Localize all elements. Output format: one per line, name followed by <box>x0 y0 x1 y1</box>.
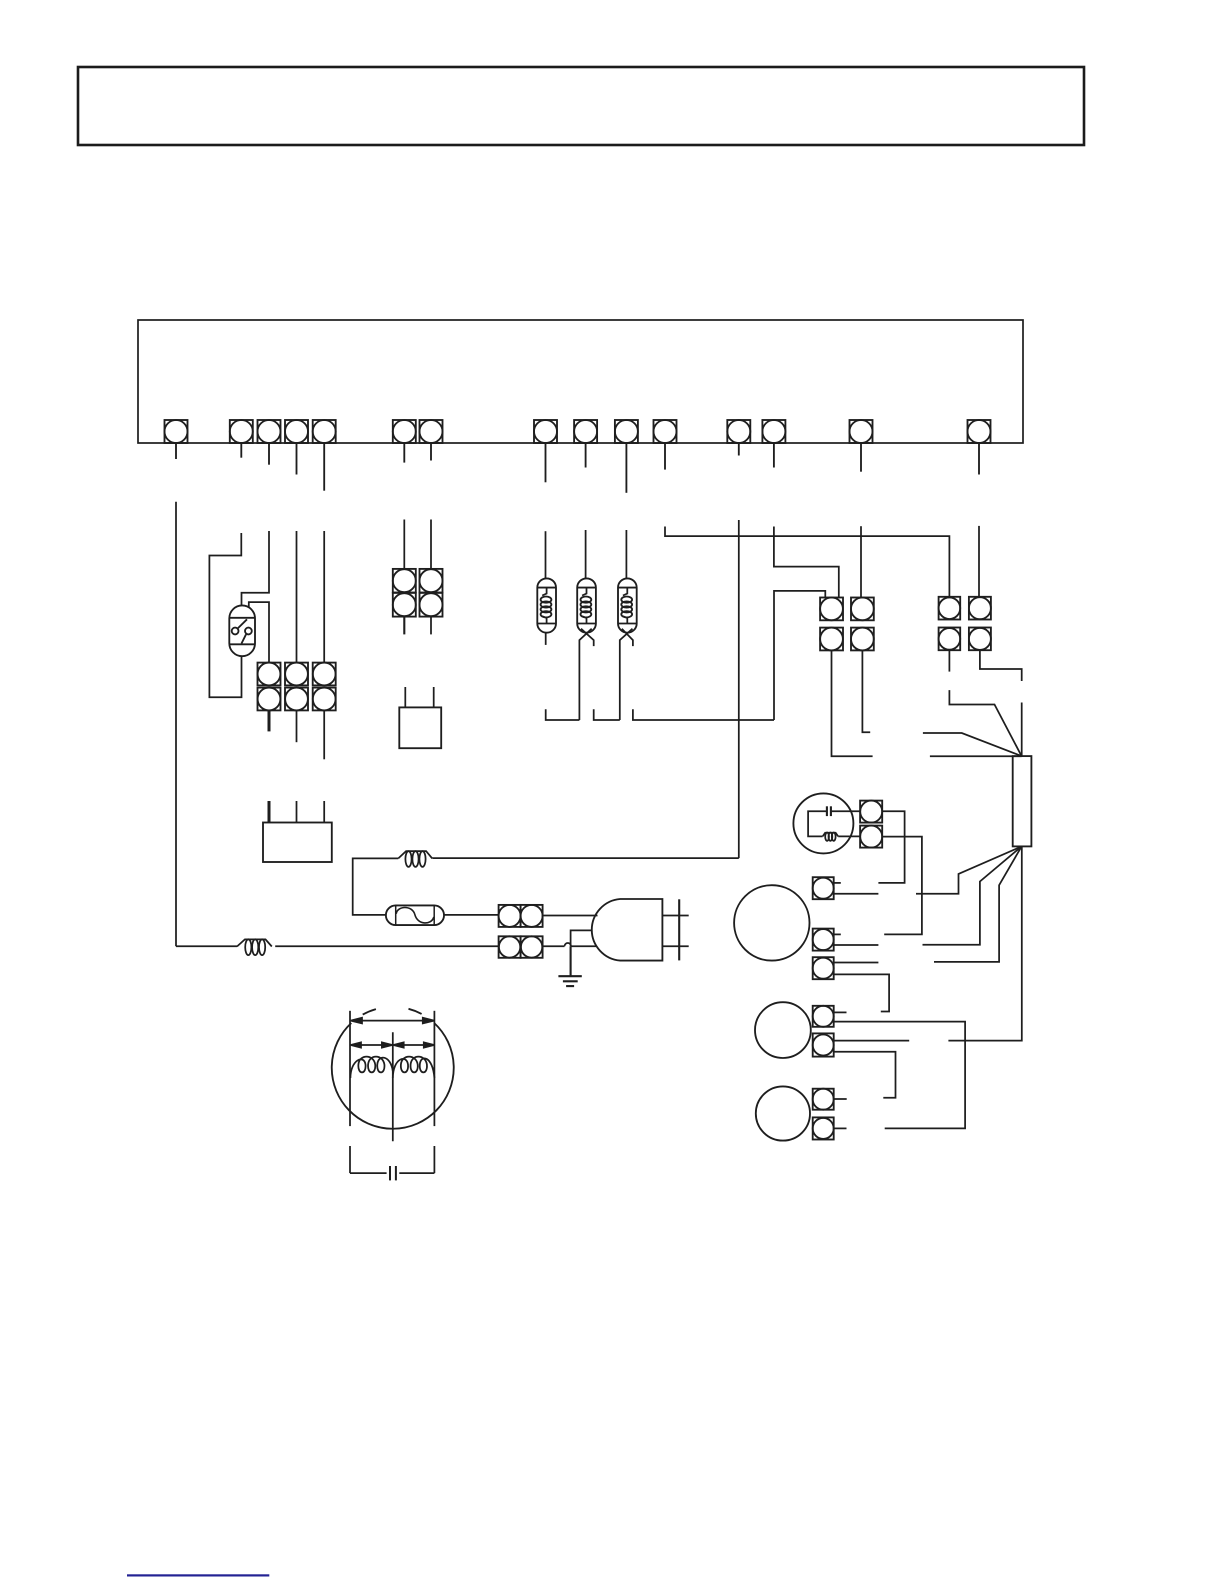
wire from T14 to molex block <box>860 526 862 597</box>
wire J6 col2 lead <box>980 650 1022 681</box>
wire terminal A upper stub <box>834 882 841 884</box>
wire terminal E lower loop to F <box>834 1052 896 1098</box>
terminal T9 <box>574 420 597 468</box>
wire from T10 down to gas valve solenoid 3 <box>625 530 627 578</box>
wire strip fan 3 to blower C <box>934 846 1022 962</box>
wire igniter stepped lead <box>571 930 593 946</box>
wire transformer primary lead 2 <box>296 801 298 823</box>
wire igniter plug pins <box>662 916 688 947</box>
terminal T11 <box>654 420 677 470</box>
inducer plug J7 pin1 <box>860 801 882 823</box>
wire transformer primary lead 1 (heavy) <box>268 801 271 823</box>
wire from T8 down to gas valve solenoid 1 <box>545 531 547 578</box>
igniter connector J4 lower pair <box>499 936 543 958</box>
winding frame right line <box>433 1011 435 1173</box>
wire from T15 to right plug block <box>978 526 980 597</box>
wire inducer cap to plug <box>831 810 860 812</box>
wire terminal D loop to G <box>834 1022 965 1129</box>
wire from T11 across to right plug <box>665 527 949 597</box>
molex block J5 row2 col1 <box>820 628 843 651</box>
gas valve solenoid SOL1 <box>537 578 556 632</box>
molex block J5 (2x2) row1 col1 <box>820 598 843 621</box>
wire solenoid 1 bottom lead <box>545 633 547 645</box>
wire igniter upper lead <box>543 915 598 917</box>
winding coil right <box>393 1057 435 1078</box>
capacitor C1 inside inducer <box>827 806 831 816</box>
wire terminal A lower stub <box>834 893 879 895</box>
wire door switch lead 1 <box>404 687 406 707</box>
motor terminal F <box>813 1089 834 1110</box>
connector block J1 (3x2) row1 col1 <box>258 663 281 686</box>
blower terminal C <box>813 957 834 979</box>
door switch box SW1 <box>399 707 441 748</box>
terminal T14 <box>850 420 873 472</box>
connector block J1 row2 col3 <box>313 688 336 711</box>
blower terminal B <box>813 929 834 951</box>
wire transformer primary lead 3 <box>323 801 325 823</box>
wire J5 col1 resumed to strip <box>930 755 1022 757</box>
winding detail dashed top arc <box>363 1009 422 1015</box>
wire door switch lead 2 <box>433 687 435 707</box>
wire J1 col1 lead (heavy) <box>268 710 271 731</box>
terminal T8 <box>534 420 557 482</box>
terminal T5 <box>313 420 336 491</box>
arrow left half span <box>351 1042 392 1047</box>
wire J1 col2 lead <box>296 710 298 742</box>
wire from T4 down to connector block <box>296 531 298 663</box>
gas valve solenoid SOL3 <box>618 578 637 632</box>
wire terminal E upper stub <box>834 1040 910 1042</box>
wire J6 col1 resumed to strip <box>949 690 1021 756</box>
wire strip fan 1 to blower A <box>916 846 1022 893</box>
wire lower feed line left segment <box>176 945 237 947</box>
terminal T2 <box>230 420 253 458</box>
plug block J2 (2x2) row1 col1 <box>393 569 416 593</box>
wire from T5 down to connector block <box>323 531 325 663</box>
arrow right half span <box>394 1042 435 1047</box>
blower motor circle M2 <box>734 885 809 960</box>
terminal T4 <box>285 420 308 475</box>
wire J2 col2 lead <box>430 617 432 635</box>
wire strip fan 2 to blower B <box>923 846 1022 944</box>
wire J2 col1 lead <box>403 617 405 635</box>
wire solenoid return segment 2 <box>594 709 620 720</box>
inductor choke L1 on lower feed line <box>237 939 272 955</box>
terminal T6 <box>393 420 416 463</box>
molex block J5 row1 col2 <box>851 598 874 621</box>
winding frame center line <box>392 1032 394 1141</box>
terminal T7 <box>420 420 443 461</box>
blower terminal A <box>813 877 834 899</box>
wire solenoid return segment 3 <box>633 709 774 720</box>
run capacitor C2 <box>350 1166 434 1180</box>
wire heater line corner down <box>353 858 399 915</box>
wire from T3 down to pressure switch top <box>242 531 270 606</box>
wire J5 col1 drop to harness strip <box>832 650 873 756</box>
overload breaker OL1 <box>386 905 444 925</box>
hot surface igniter HSI <box>592 899 663 961</box>
igniter connector J3 upper pair <box>499 905 543 927</box>
wire solenoid 3 crossed leads <box>620 629 633 720</box>
inductor choke L2 on heater line <box>398 851 432 867</box>
wire solenoid 2 crossed leads <box>579 629 593 720</box>
plug block J6 (2x2) row1 col1 <box>939 597 961 620</box>
wire solenoid return riser to molex <box>774 591 825 720</box>
wire terminal C upper stub <box>834 962 879 964</box>
connector block J1 row1 col2 <box>285 663 308 686</box>
auxiliary motor circle M4 <box>756 1086 810 1140</box>
wire J1 col3 lead <box>323 710 325 759</box>
molex block J5 row2 col2 <box>851 628 874 651</box>
wire inducer cap branch <box>808 811 827 836</box>
plug block J6 row2 col2 <box>969 628 991 651</box>
terminal T13 <box>762 420 785 468</box>
plug block J2 row2 col1 <box>393 593 416 617</box>
inductor winding inside inducer <box>823 833 839 841</box>
connector block J1 row1 col3 <box>313 663 336 686</box>
plug block J6 row2 col1 <box>939 628 961 651</box>
wire terminal F stub <box>834 1098 847 1100</box>
ground symbol GND <box>558 946 581 986</box>
winding frame left line <box>349 1011 351 1173</box>
wire from T7 down to plug block <box>430 520 432 569</box>
wire J5 col2 resumed to strip <box>923 733 1022 756</box>
transformer TR1 <box>263 823 332 863</box>
wire J6 col1 lead <box>948 650 950 671</box>
wire igniter lower lead with junction bump <box>543 943 596 946</box>
control board outline <box>138 320 1023 443</box>
footer link line <box>127 1574 269 1576</box>
wire from T9 down to gas valve solenoid 2 <box>585 530 587 578</box>
motor terminal G <box>813 1117 834 1139</box>
plug block J6 row1 col2 <box>969 597 991 620</box>
wire breaker to igniter connector <box>445 914 499 916</box>
wire J7 pin2 loop to blower B <box>882 837 922 935</box>
wire from T1 down to lower feed line <box>175 502 177 947</box>
igniter plug blade <box>678 899 680 960</box>
wire terminal B lower stub <box>834 944 879 946</box>
wire from T2 jog to pressure switch bottom <box>209 533 241 697</box>
wire from T12 long drop <box>738 520 740 858</box>
arrow full span <box>351 1018 434 1024</box>
winding coil left <box>350 1057 392 1078</box>
wire J6 col2 resumed to strip <box>1021 703 1023 757</box>
wire inducer winding to plug <box>838 835 860 837</box>
wire heater line leftward <box>432 857 738 859</box>
motor terminal D <box>813 1006 834 1027</box>
winding detail circle M5 <box>332 1023 454 1129</box>
pressure switch PS1 <box>229 605 255 656</box>
wire from T6 down to plug block <box>403 520 405 569</box>
wire solenoid return segment 1 <box>546 709 580 720</box>
motor terminal E <box>813 1033 834 1056</box>
wire lower feed line to igniter connector <box>275 945 498 947</box>
harness strip CONN <box>1013 756 1032 846</box>
title block (empty) <box>78 67 1084 145</box>
wire terminal B upper stub <box>834 933 841 935</box>
plug block J2 row1 col2 <box>420 569 443 593</box>
wire J7 pin1 loop to blower A <box>878 811 904 883</box>
wire pressure switch right lead to connector column <box>249 602 269 663</box>
terminal T15 <box>968 420 991 475</box>
wire J5 col2 drop <box>862 650 870 732</box>
wire strip fan 4 long drop <box>948 846 1021 1040</box>
wire from T13 to molex block <box>774 527 839 598</box>
terminal T1 <box>165 420 188 459</box>
auxiliary motor circle M3 <box>755 1002 811 1058</box>
wire terminal D stub <box>834 1011 847 1013</box>
inducer motor circle M1 <box>793 793 853 853</box>
terminal T3 <box>258 420 281 465</box>
plug block J2 row2 col2 <box>420 593 443 617</box>
connector block J1 row2 col2 <box>285 688 308 711</box>
inducer plug J7 pin2 <box>860 826 882 848</box>
wire terminal C lower loop to D <box>834 974 889 1011</box>
terminal T12 <box>727 420 750 456</box>
gas valve solenoid SOL2 <box>577 578 596 632</box>
wire terminal G stub <box>834 1127 847 1129</box>
terminal T10 <box>615 420 638 493</box>
connector block J1 row2 col1 <box>258 688 281 711</box>
